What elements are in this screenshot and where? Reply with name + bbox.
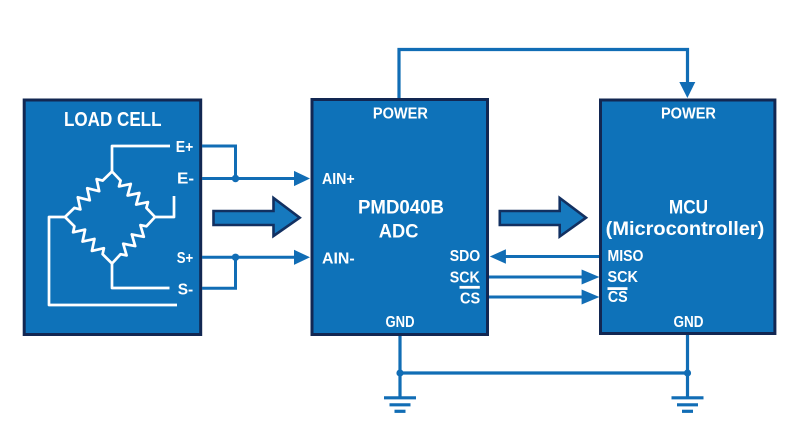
svg-text:E-: E- (177, 171, 194, 188)
svg-text:AIN-: AIN- (322, 250, 355, 267)
svg-text:E+: E+ (176, 139, 194, 156)
svg-text:SDO: SDO (450, 248, 481, 265)
svg-text:GND: GND (386, 314, 415, 331)
svg-text:MCU: MCU (669, 198, 708, 219)
svg-text:POWER: POWER (661, 106, 716, 123)
svg-text:CS: CS (460, 290, 480, 307)
svg-text:S+: S+ (177, 250, 194, 267)
svg-text:GND: GND (674, 314, 704, 331)
svg-text:(Microcontroller): (Microcontroller) (606, 219, 765, 240)
svg-text:CS: CS (608, 289, 628, 306)
svg-text:POWER: POWER (373, 106, 428, 123)
svg-text:SCK: SCK (608, 269, 639, 286)
svg-text:SCK: SCK (450, 270, 481, 287)
svg-text:AIN+: AIN+ (322, 171, 355, 188)
svg-text:LOAD CELL: LOAD CELL (64, 109, 162, 131)
svg-text:S-: S- (178, 281, 194, 298)
svg-text:ADC: ADC (379, 221, 419, 242)
svg-text:MISO: MISO (608, 248, 644, 265)
svg-text:PMD040B: PMD040B (358, 197, 444, 218)
